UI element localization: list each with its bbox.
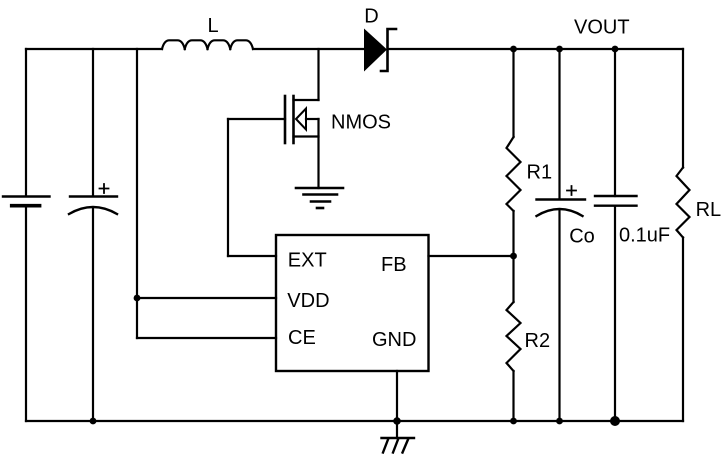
wire battery top lead: [25, 49, 27, 196]
IC U1 (controller): [276, 235, 429, 371]
wire bottom rail: [26, 420, 683, 422]
wire Co bottom lead: [558, 210, 560, 421]
node VDD junction: [134, 295, 141, 302]
resistor R2: [507, 302, 521, 371]
svg-text:GND: GND: [372, 329, 416, 351]
capacitor C1 0.1uF: [595, 196, 637, 206]
svg-text:FB: FB: [381, 254, 407, 276]
wire gate: [228, 118, 285, 120]
node GND junction: [393, 417, 401, 425]
node bottom rail / input cap: [90, 418, 97, 425]
wire RL bottom lead: [682, 238, 684, 422]
svg-text:EXT: EXT: [288, 249, 327, 271]
svg-text:D: D: [364, 6, 378, 28]
svg-text:R2: R2: [525, 330, 551, 352]
wire NMOS drain to top: [317, 49, 319, 100]
battery: [3, 197, 50, 206]
svg-text:0.1uF: 0.1uF: [619, 225, 670, 247]
svg-text:VOUT: VOUT: [574, 17, 630, 39]
node R2 bottom: [510, 418, 517, 425]
node C1 top: [612, 46, 619, 53]
wire C1 bottom lead: [614, 206, 616, 421]
wire NMOS source to ground: [317, 119, 319, 188]
wire FB: [429, 255, 514, 257]
wire GND pin to ground: [396, 371, 398, 438]
wire gate to EXT vertical: [227, 119, 229, 256]
ground (NMOS source): [296, 188, 343, 208]
svg-text:R1: R1: [527, 162, 553, 184]
wire VDD/CE supply vertical: [136, 49, 138, 338]
node R1 top: [510, 46, 517, 53]
node FB junction: [510, 253, 517, 260]
wire CE: [137, 337, 276, 339]
node C1 bottom: [610, 416, 620, 426]
wire diode to top-right corner: [389, 48, 683, 50]
wire RL top lead: [682, 49, 684, 168]
wire battery bottom lead: [25, 207, 27, 421]
resistor RL: [677, 168, 690, 238]
ground (chassis, main): [382, 438, 415, 453]
svg-text:CE: CE: [288, 327, 316, 349]
wire Co top lead: [558, 49, 560, 199]
wire VDD: [137, 297, 276, 299]
capacitor Co (polarized): [537, 186, 586, 216]
wire inductor to diode: [253, 48, 364, 50]
transistor Q1 NMOS: [285, 96, 319, 143]
wire R1 top lead: [512, 49, 514, 137]
node Co top: [556, 46, 563, 53]
wire R2 bottom lead: [512, 371, 514, 421]
svg-text:L: L: [208, 15, 219, 37]
svg-text:Co: Co: [569, 225, 595, 247]
inductor L: [162, 40, 253, 49]
wire input cap bottom lead: [92, 208, 94, 422]
wire top left (battery to inductor): [26, 48, 162, 50]
svg-text:RL: RL: [696, 199, 722, 221]
wire R1 to R2: [512, 211, 514, 302]
wire C1 top lead: [614, 49, 616, 196]
svg-text:NMOS: NMOS: [331, 112, 391, 134]
wire EXT: [228, 255, 276, 257]
node Co bottom: [556, 418, 563, 425]
wire input cap top lead: [92, 49, 94, 196]
svg-text:VDD: VDD: [287, 290, 329, 312]
capacitor Cin (polarized): [69, 184, 117, 214]
resistor R1: [507, 137, 521, 211]
diode D (schottky): [364, 29, 396, 72]
